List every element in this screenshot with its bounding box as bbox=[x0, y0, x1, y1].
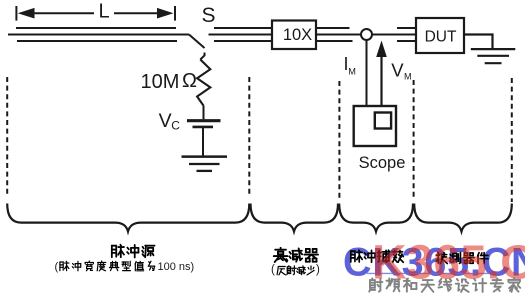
label device under test (hanzi) bbox=[436, 253, 488, 264]
scope screen square bbox=[375, 113, 391, 129]
scope box bbox=[354, 106, 396, 146]
svg-text:10M: 10M bbox=[141, 71, 180, 93]
wire coax bottom stub at DUT bbox=[397, 40, 416, 42]
svg-text:C: C bbox=[171, 118, 180, 132]
separator dashed line 1 bbox=[6, 77, 8, 197]
wire coax bottom line (left section) bbox=[17, 40, 177, 42]
separator dashed line 2 bbox=[248, 77, 250, 196]
watermark slogan (hanzi, gray) bbox=[369, 278, 520, 292]
brace attenuator section bbox=[251, 204, 339, 232]
wire coax top stub at DUT bbox=[397, 27, 416, 29]
wire coax top line (attenuator to node) bbox=[316, 27, 350, 29]
svg-text:100 ns): 100 ns) bbox=[158, 261, 195, 273]
watermark underline bbox=[367, 272, 499, 274]
node measurement point bbox=[361, 29, 372, 40]
wire battery to ground bbox=[202, 128, 204, 156]
svg-text:V: V bbox=[391, 60, 404, 81]
wire coax top line (switch to attenuator) bbox=[214, 27, 272, 29]
dimension arrow left bbox=[18, 8, 94, 19]
wire coax center conductor (switch to attenuator) bbox=[209, 34, 273, 36]
svg-text:): ) bbox=[316, 264, 320, 276]
label attenuator (hanzi) bbox=[274, 248, 318, 262]
separator dashed line 5 bbox=[511, 78, 513, 202]
label pulse source (hanzi) bbox=[112, 245, 155, 258]
dimension line ticks bbox=[16, 6, 175, 21]
svg-text:Scope: Scope bbox=[359, 154, 406, 172]
label 10M ohm bbox=[141, 70, 198, 93]
svg-text:L: L bbox=[98, 1, 109, 23]
label VC bbox=[159, 110, 181, 132]
wire coax bottom line (attenuator to node) bbox=[316, 40, 353, 42]
switch S blade bbox=[189, 35, 205, 49]
ground (DUT) bbox=[471, 49, 516, 63]
svg-text:Ω: Ω bbox=[182, 70, 197, 92]
battery VC plate top bbox=[187, 119, 221, 122]
ground (pulse source) bbox=[182, 157, 228, 171]
svg-text:(: ( bbox=[55, 261, 59, 273]
arrow VM bbox=[376, 41, 387, 107]
label pulse width note (hanzi + latin) bbox=[55, 261, 195, 273]
label reflection reduction note (hanzi) bbox=[271, 264, 320, 276]
separator dashed line 3 bbox=[338, 81, 340, 198]
resistor 10M bbox=[197, 60, 210, 106]
svg-text:M: M bbox=[348, 67, 356, 77]
svg-text:10X: 10X bbox=[283, 26, 312, 44]
label IM bbox=[344, 54, 356, 77]
svg-text:M: M bbox=[404, 72, 412, 82]
svg-text:V: V bbox=[159, 110, 172, 132]
wire node to scope bbox=[366, 40, 368, 106]
brace pulse source section bbox=[7, 204, 249, 232]
svg-text:S: S bbox=[201, 4, 215, 27]
svg-text:DUT: DUT bbox=[425, 29, 457, 46]
wire switch to resistor bbox=[200, 53, 204, 60]
label pulse capture (hanzi) bbox=[351, 250, 404, 262]
battery VC plate bottom bbox=[193, 126, 214, 129]
brace pulse capture section bbox=[339, 204, 413, 232]
DUT box bbox=[416, 18, 464, 53]
separator dashed line 4 bbox=[413, 80, 415, 198]
wire coax center conductor (attenuator to node) bbox=[316, 34, 361, 36]
dimension arrow right bbox=[114, 8, 174, 19]
attenuator box 10X bbox=[272, 21, 316, 50]
label VM bbox=[391, 60, 411, 82]
wire resistor to battery bbox=[203, 106, 205, 120]
brace DUT section bbox=[414, 204, 512, 232]
wire coax top line (left section) bbox=[16, 27, 176, 29]
wire node to DUT bbox=[372, 34, 416, 36]
wire coax center conductor (left section) bbox=[8, 34, 189, 36]
wire coax bottom line (switch to attenuator) bbox=[214, 40, 272, 42]
wire DUT to ground bbox=[464, 35, 493, 49]
svg-text:(: ( bbox=[271, 264, 275, 276]
